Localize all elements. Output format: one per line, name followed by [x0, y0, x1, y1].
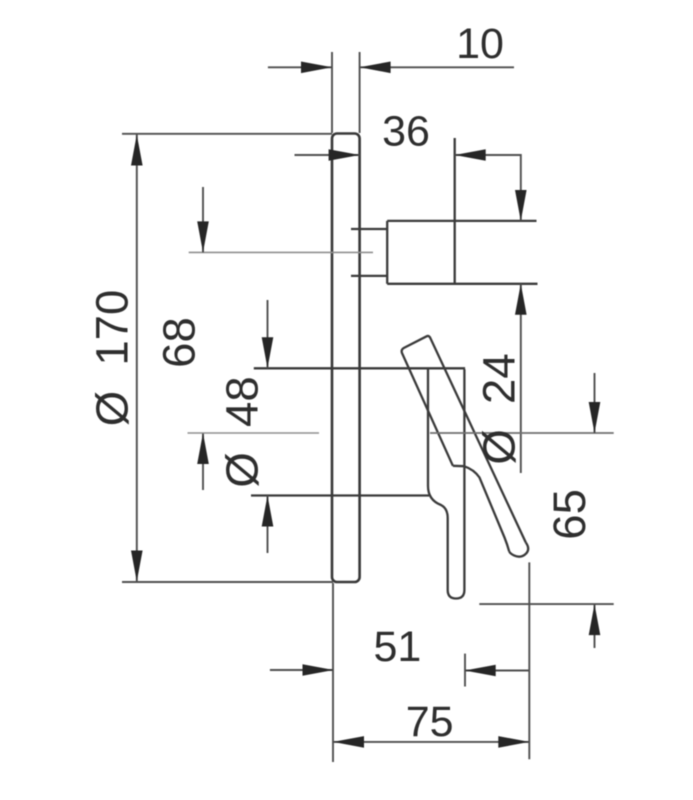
dim 65 upper tail — [594, 373, 596, 433]
dim 170 dimension line — [136, 134, 138, 582]
dim 51 right extension line — [464, 654, 466, 687]
svg-text:Ø 48: Ø 48 — [217, 376, 268, 487]
body bottom edge with Ø48 extension — [251, 494, 429, 496]
svg-text:Ø 24: Ø 24 — [474, 353, 525, 464]
dim 36 left tail — [295, 154, 360, 156]
dim 48 upper tail — [267, 300, 269, 368]
lever outer edge, top cap and upper inner edge — [402, 336, 526, 543]
cartridge center line — [189, 251, 373, 253]
dim 51 right tail — [465, 670, 530, 672]
body right edge, fillet, lower grip piece outline — [428, 368, 464, 598]
lever inner edge step — [453, 465, 464, 468]
cartridge neck top edge — [351, 228, 387, 230]
arrow 36 right — [455, 149, 486, 161]
pivot center line left — [188, 432, 320, 434]
dim 68 lower tail — [202, 433, 204, 490]
svg-text:51: 51 — [373, 623, 421, 671]
dim 68 upper tail — [202, 187, 204, 252]
arrow 48 top — [262, 337, 274, 368]
svg-text:10: 10 — [456, 20, 504, 68]
cartridge box top edge with Ø24 extension — [387, 220, 536, 222]
svg-text:36: 36 — [382, 108, 430, 156]
wall plate — [332, 134, 360, 583]
dim 10 left tail — [268, 66, 332, 68]
svg-text:68: 68 — [154, 317, 205, 368]
arrow 51 right — [465, 665, 496, 677]
pivot center line right — [430, 432, 614, 434]
lever rounded tip — [509, 543, 528, 557]
arrow 68 bottom — [197, 433, 209, 464]
arrow 51 left — [303, 664, 334, 676]
arrow 10 left — [301, 62, 332, 74]
arrow 170 top — [131, 135, 143, 166]
left extension line below plate — [332, 583, 334, 762]
lever inner edge lower — [464, 466, 509, 551]
dim 75 dimension line — [333, 741, 529, 743]
dim 36 right tail with corner down to cartridge top — [455, 155, 521, 221]
dim 10 right tail — [360, 66, 514, 68]
arrow 75 right — [498, 736, 529, 748]
cartridge box front face and 36 extension line — [454, 138, 456, 284]
arrow 65 bottom — [589, 604, 601, 635]
body top edge with Ø48 extension — [254, 367, 465, 369]
arrow 170 bottom — [131, 551, 143, 582]
dim 51 left tail — [270, 669, 334, 671]
cartridge box back edge — [386, 221, 388, 284]
dim 65 bottom line — [479, 603, 613, 605]
cartridge box bottom edge with Ø24 extension — [387, 283, 537, 285]
dim 170 bottom extension line — [122, 581, 333, 583]
dim 10 left extension line — [331, 52, 333, 133]
arrow 10 right — [360, 62, 391, 74]
arrow 24 bottom — [515, 284, 527, 315]
handle tip extension line — [528, 562, 530, 759]
dim 170 top extension line — [122, 133, 332, 135]
dim 48 lower tail — [267, 496, 269, 554]
arrow 36 left — [329, 149, 360, 161]
svg-text:Ø 170: Ø 170 — [87, 290, 138, 427]
arrow 68 top — [197, 221, 209, 252]
svg-text:75: 75 — [406, 698, 454, 746]
arrow 48 bottom — [262, 496, 274, 527]
arrow 75 left — [333, 736, 364, 748]
dim 24 lower tail — [520, 284, 522, 473]
svg-text:65: 65 — [544, 489, 595, 540]
dim 65 lower tail — [594, 604, 596, 648]
dim 10 right extension line — [359, 52, 361, 133]
arrow 24 top — [515, 190, 527, 221]
cartridge neck bottom edge — [351, 275, 387, 277]
arrow 65 top — [589, 402, 601, 433]
